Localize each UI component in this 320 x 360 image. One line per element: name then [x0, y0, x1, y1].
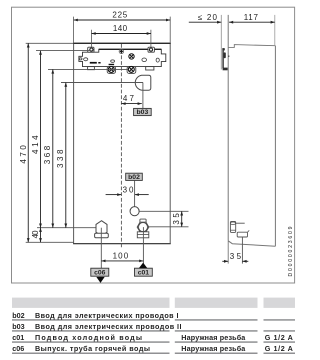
c01 flow arrow up — [139, 263, 148, 269]
slot above left screw — [109, 64, 115, 65]
b03 cable entry — [135, 75, 151, 90]
svg-text:c06: c06 — [12, 344, 24, 353]
bracket bottom tab left — [88, 67, 95, 70]
label b03 — [134, 108, 152, 115]
center diamond node — [119, 49, 124, 54]
svg-text:Ввод для электрических проводо: Ввод для электрических проводов I — [35, 311, 179, 320]
table row b02 — [12, 311, 178, 320]
dim 35 front — [181, 211, 183, 227]
dim 140 — [92, 33, 151, 35]
svg-text:338: 338 — [56, 149, 65, 168]
fitting c01 hexagon — [137, 222, 149, 232]
dim 225 extension lines — [73, 17, 75, 43]
b02 leader — [134, 180, 136, 206]
dim 47 — [121, 103, 141, 105]
tab hole right — [149, 48, 152, 51]
b03 leader — [142, 83, 144, 109]
svg-text:c01: c01 — [138, 270, 150, 277]
b02 cable entry circle — [130, 207, 139, 216]
side fitting cylinder — [230, 222, 235, 233]
fitting c01 cap — [140, 219, 146, 222]
svg-text:Ввод для электрических проводо: Ввод для электрических проводов II — [35, 322, 182, 331]
screw right — [128, 66, 134, 72]
svg-text:470: 470 — [19, 145, 28, 164]
dim 470 — [27, 43, 29, 242]
dim 414 — [40, 51, 42, 228]
svg-text:117: 117 — [244, 13, 259, 22]
dim 368 — [52, 69, 54, 227]
svg-text:47: 47 — [123, 94, 135, 103]
centerline dashed — [120, 44, 122, 249]
label c06 — [91, 268, 109, 276]
leader 470 — [26, 42, 74, 44]
c01 leader — [142, 227, 144, 268]
svg-text:140: 140 — [113, 24, 128, 33]
legend table header band — [12, 298, 295, 308]
keyhole tab right — [127, 66, 136, 73]
side view back edge — [274, 15, 276, 46]
table row b03 — [12, 322, 181, 331]
svg-text:b03: b03 — [12, 322, 24, 331]
fitting c06 flange — [95, 233, 109, 237]
table underlines — [12, 320, 295, 354]
label c01 — [135, 268, 153, 276]
svg-text:225: 225 — [112, 11, 127, 20]
svg-text:Наружная резьба: Наружная резьба — [181, 333, 246, 342]
leader 414 — [36, 50, 91, 52]
svg-text:G 1/2 A: G 1/2 A — [265, 333, 293, 342]
front view body outline — [74, 43, 171, 243]
dim 338 — [65, 83, 67, 228]
svg-text:b02: b02 — [12, 311, 24, 320]
table row c06 — [12, 344, 293, 353]
small ovals — [79, 58, 159, 63]
body bottom edge — [73, 243, 171, 245]
dim 40 — [40, 228, 42, 243]
svg-text:414: 414 — [31, 135, 40, 154]
leader fitting level right — [149, 226, 189, 228]
dim 117 — [229, 21, 275, 23]
bracket top tab right — [148, 47, 154, 52]
body top edge — [73, 42, 171, 44]
svg-text:b02: b02 — [128, 174, 140, 181]
svg-text:Наружная резьба: Наружная резьба — [181, 344, 246, 353]
side view bottom edge — [228, 241, 275, 246]
svg-text:368: 368 — [43, 145, 52, 164]
tab hole left — [90, 48, 93, 51]
c06 leader — [100, 228, 102, 269]
screw upper — [129, 54, 134, 59]
table row c01 — [12, 333, 293, 342]
side connection box — [237, 232, 247, 237]
bracket top tab left — [88, 47, 94, 52]
svg-text:c01: c01 — [12, 333, 24, 342]
screw left — [108, 67, 114, 73]
dim 30 — [106, 194, 122, 196]
dim le20 — [189, 21, 222, 23]
leader body bottom — [26, 241, 74, 243]
face tick — [228, 56, 229, 57]
mounting bracket plate — [79, 49, 166, 66]
svg-text:100: 100 — [113, 252, 129, 261]
dark dash marks — [90, 62, 97, 64]
leader 338 — [61, 82, 143, 84]
dim 140 extension lines — [91, 30, 93, 47]
svg-text:c06: c06 — [94, 270, 106, 277]
svg-text:≤ 20: ≤ 20 — [198, 13, 218, 22]
dim 225 — [74, 19, 171, 21]
side box tick — [248, 230, 250, 232]
bracket bottom tab right — [146, 67, 154, 70]
frame border — [12, 7, 295, 283]
svg-text:40: 40 — [31, 230, 40, 239]
side pipe line — [236, 222, 245, 224]
svg-text:Подвод холодной воды: Подвод холодной воды — [35, 333, 142, 342]
fitting c01 circle — [139, 223, 148, 232]
svg-text:G 1/2 A: G 1/2 A — [265, 344, 293, 353]
side wall bracket — [222, 48, 227, 70]
side view top edge — [228, 45, 275, 48]
svg-text:35: 35 — [230, 252, 242, 261]
svg-text:b03: b03 — [137, 109, 149, 116]
svg-text:30: 30 — [123, 185, 134, 194]
side dim 35 — [222, 260, 228, 262]
side view wall line — [220, 15, 222, 70]
leader b02 level — [139, 210, 188, 212]
fitting c06 hexagon — [96, 221, 107, 236]
side view front face — [227, 15, 229, 241]
svg-text:35: 35 — [172, 213, 181, 225]
keyhole tab left — [107, 66, 115, 73]
leader 368 — [48, 68, 128, 70]
fitting c01 base — [137, 232, 149, 238]
dim 100 — [101, 260, 143, 262]
svg-text:D0000023609: D0000023609 — [288, 226, 294, 276]
side dim 35 extensions — [227, 241, 229, 264]
c06 flow arrow down — [96, 277, 104, 283]
label b02 — [126, 173, 143, 180]
svg-text:Выпуск. труба горячей воды: Выпуск. труба горячей воды — [35, 344, 150, 353]
leader datum fittings — [37, 227, 102, 229]
